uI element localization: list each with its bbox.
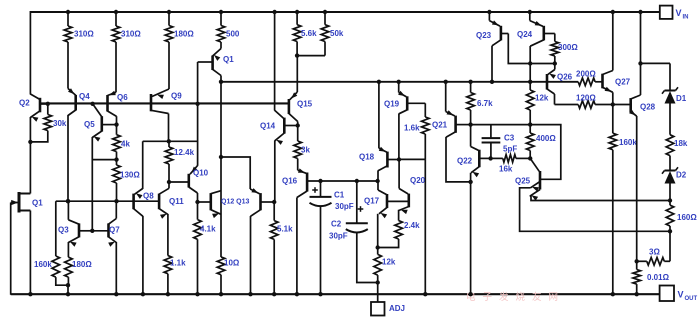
wire Q10 emitter feed (197, 62, 199, 166)
svg-text:Q26: Q26 (557, 73, 573, 82)
svg-text:120Ω: 120Ω (576, 94, 596, 103)
svg-text:ADJ: ADJ (389, 304, 405, 313)
svg-text:Q7: Q7 (109, 226, 120, 235)
wire Q13 collector down (250, 216, 252, 294)
node Q3 collector / base line (66, 199, 70, 203)
svg-text:5.1k: 5.1k (277, 225, 293, 234)
svg-text:18k: 18k (674, 139, 688, 148)
node 120ohm line / Q27 emitter (611, 102, 615, 106)
node y82 line / Q1a collector (219, 80, 223, 84)
node Q4 collector / 160k line (66, 199, 70, 203)
wire Q15 collector (297, 122, 299, 126)
transistor Q1a (500 ohm emitter follower) (220, 42, 222, 49)
node Q15 collector / Q14 base / 3k (296, 123, 300, 127)
node y82 / Q18 emitter (377, 80, 381, 84)
svg-text:180Ω: 180Ω (72, 260, 92, 269)
transistor Q14 (275, 110, 284, 118)
svg-text:Q24: Q24 (517, 30, 533, 39)
svg-text:V: V (676, 8, 682, 18)
svg-text:130Ω: 130Ω (120, 171, 140, 180)
resistor 16k (491, 157, 503, 159)
svg-text:2.4k: 2.4k (404, 221, 420, 230)
wire Q4 collector down (67, 115, 69, 201)
svg-text:Q22: Q22 (457, 157, 473, 166)
resistor 400ohm (529, 125, 531, 133)
svg-text:500: 500 (226, 30, 240, 39)
wire Q1 gate down to bottom rail (10, 203, 12, 295)
node Q16 base line / Q18 collector / Q17 collector (375, 179, 379, 183)
wire C1 bottom to rail (320, 206, 322, 294)
svg-text:12.4k: 12.4k (174, 148, 195, 157)
wire Q2 emitter down (29, 117, 31, 142)
resistor 5.6k (296, 12, 298, 25)
svg-text:180Ω: 180Ω (174, 30, 194, 39)
node 400ohm bottom / 16k / Q25 collector (528, 156, 532, 160)
wire Q10 collector to Q12 base node (197, 193, 199, 202)
svg-text:D2: D2 (676, 171, 687, 180)
transistor Q9 (152, 89, 169, 97)
wire 4k bottom to Q5 emitter column (92, 159, 116, 161)
svg-text:12k: 12k (535, 94, 549, 103)
node y82 / Q19 emitter (397, 80, 401, 84)
wire 310ohm-2 to Q6 emitter (115, 42, 117, 92)
node Q22 emitter / Q21 collector (468, 180, 472, 184)
wire C2 bottom to ADJ node (357, 232, 378, 282)
wire bottom rail (V_OUT) (11, 293, 660, 295)
transistor Q6 (108, 92, 117, 95)
wire Q3 emitter to 180ohm (67, 242, 69, 257)
node Q19 collector / Q18 base / 1.6k line (397, 157, 401, 161)
resistor 180ohm top (168, 12, 170, 26)
svg-text:Q23: Q23 (476, 31, 492, 40)
wire 310ohm-1 to Q4 emitter (67, 42, 69, 89)
svg-text:4k: 4k (121, 140, 130, 149)
resistor 4.1k (197, 202, 199, 220)
node top rail / Q14 collector column (272, 10, 276, 14)
terminal ADJ (371, 302, 385, 316)
terminal V_IN (660, 6, 673, 19)
node 4k bottom (114, 157, 118, 161)
node Q17 emitter / 2.4k / 12k (376, 245, 380, 249)
wire D1 branch (641, 62, 671, 64)
wire to Q15 emitter (296, 56, 298, 92)
svg-text:Q25: Q25 (515, 177, 531, 186)
node branch to Q13 emitter (219, 155, 223, 159)
node top rail / R 5.6k (295, 10, 299, 14)
svg-text:30pF: 30pF (335, 202, 354, 211)
resistor 12k upper (529, 82, 531, 90)
wire Q18 collector down to Q16 base node (377, 171, 379, 182)
resistor 5.1k (273, 202, 275, 221)
svg-text:V: V (678, 290, 684, 300)
svg-text:Q1: Q1 (223, 55, 234, 64)
transistor Q24 (529, 12, 531, 21)
diode D2 zener (665, 170, 676, 172)
capacitor C1 (320, 181, 322, 197)
svg-text:Q4: Q4 (79, 92, 90, 101)
node Q28 collector / D1 branch (638, 61, 642, 65)
resistor 160k left (55, 201, 57, 256)
wire Q22 emitter down (470, 173, 472, 294)
transistor Q17 (377, 181, 379, 190)
node 160k/180ohm join (66, 283, 70, 287)
wire left edge from top rail to Q2 collector (29, 11, 31, 95)
transistor Q1 (JFET) (18, 192, 21, 213)
svg-text:Q27: Q27 (615, 78, 631, 87)
node y82 / 12k top (528, 80, 532, 84)
resistor 130ohm (116, 160, 118, 165)
wire Q25 emitter 2 to D2 node line (530, 196, 670, 200)
resistor 50k (324, 12, 326, 25)
wire to 3ohm (669, 231, 671, 261)
node 130ohm / base line (114, 199, 118, 203)
svg-text:OUT: OUT (685, 296, 698, 302)
svg-text:Q2: Q2 (19, 99, 30, 108)
wire Q27 emitter down (612, 92, 614, 133)
resistor 310ohm second (115, 12, 117, 26)
transistor Q21 (445, 82, 447, 112)
node top rail / Q23 emitter (487, 10, 491, 14)
wire feedback loop to Q25 base (530, 125, 561, 180)
wire 120ohm line to Q28 base (555, 104, 579, 106)
svg-text:Q6: Q6 (117, 93, 128, 102)
transistor Q26 (554, 64, 556, 70)
node 5.6k/50k join (295, 53, 299, 57)
transistor Q13 (250, 189, 259, 194)
node top rail / R 500 (219, 10, 223, 14)
transistor Q27 (601, 74, 604, 89)
svg-text:Q14: Q14 (260, 122, 276, 131)
svg-text:1.6k: 1.6k (404, 124, 420, 133)
resistor 12k lower (377, 248, 379, 255)
node D2 bottom / Q25 emitter2 line (668, 198, 672, 202)
svg-text:Q16: Q16 (282, 177, 298, 186)
svg-text:10Ω: 10Ω (224, 259, 240, 268)
wire Q19 collector down (398, 114, 400, 160)
node base rail / 30k (46, 102, 50, 106)
node 12k bottom / feedback loop (528, 122, 532, 126)
transistor Q18 (378, 82, 380, 148)
transistor Q16 (298, 170, 307, 173)
svg-text:Q20: Q20 (410, 176, 426, 185)
wire Q17/Q20 common base (387, 200, 409, 202)
svg-text:Q21: Q21 (432, 121, 448, 130)
svg-text:Q18: Q18 (359, 153, 375, 162)
transistor Q2 (39, 98, 42, 113)
transistor Q20 (398, 160, 400, 189)
resistor 1.1k (164, 256, 172, 274)
wire Q23 base routing (508, 34, 555, 64)
svg-text:Q15: Q15 (297, 100, 313, 109)
transistor Q4 (68, 89, 76, 96)
svg-text:D1: D1 (676, 94, 687, 103)
svg-text:12k: 12k (382, 258, 396, 267)
svg-text:Q8: Q8 (143, 192, 154, 201)
wire Q6 collector down (116, 116, 118, 125)
transistor Q12 (210, 193, 213, 210)
svg-text:400Ω: 400Ω (536, 134, 556, 143)
svg-text:Q10: Q10 (193, 169, 209, 178)
svg-text:3k: 3k (301, 146, 310, 155)
resistor 160ohm right (669, 201, 671, 206)
wire D1 to 18k (669, 104, 671, 135)
svg-text:Q17: Q17 (364, 197, 380, 206)
wire Q1 source down to bottom rail (29, 211, 31, 295)
svg-text:Q5: Q5 (84, 120, 95, 129)
wire down to Q8 emitter (142, 141, 144, 189)
resistor 12.4k (168, 141, 170, 147)
capacitor C2 (356, 181, 358, 223)
wire Q24 collector down (529, 46, 531, 64)
svg-text:310Ω: 310Ω (121, 30, 141, 39)
node Q28 emitter / 3ohm / 0.01ohm (635, 259, 639, 263)
svg-text:200Ω: 200Ω (576, 70, 596, 79)
svg-text:C1: C1 (334, 191, 345, 200)
wire Q10 base (169, 181, 189, 183)
svg-text:Q28: Q28 (640, 103, 656, 112)
node Q3/Q7 base (90, 229, 94, 233)
svg-text:0.01Ω: 0.01Ω (647, 273, 670, 282)
node top rail / R 180ohm (167, 10, 171, 14)
svg-text:4.1k: 4.1k (200, 225, 216, 234)
wire Q1a-collector column down to Q12 (220, 82, 222, 257)
svg-text:Q9: Q9 (171, 92, 182, 101)
wire Q14 collector column (274, 12, 276, 111)
node top rail / R 310ohm-1 (66, 10, 70, 14)
svg-text:IN: IN (683, 15, 689, 21)
transistor Q11 (158, 194, 161, 210)
wire down to Q1 drain (29, 142, 31, 194)
node 6.7k bottom / Q21 base / Q22 collector (468, 122, 472, 126)
wire Q14 emitter down to Q13 base node (274, 141, 276, 203)
svg-text:160k: 160k (34, 260, 52, 269)
wire 18k to D2 (669, 156, 671, 170)
svg-text:300Ω: 300Ω (558, 43, 578, 52)
svg-text:Q19: Q19 (384, 100, 400, 109)
node Q12 base / Q10 collector / 4.1k (195, 200, 199, 204)
node C3 bottom / 16k line (488, 156, 492, 160)
capacitor C3 (490, 125, 492, 139)
node top rail / Q27 collector (611, 10, 615, 14)
resistor 6.7k (470, 82, 472, 93)
wire top supply rail (V_IN) (30, 11, 659, 13)
node y82 / 6.7k top (468, 80, 472, 84)
svg-text:Q3: Q3 (58, 226, 69, 235)
node 12k bottom / C2 / ADJ stem (376, 280, 380, 284)
svg-text:160Ω: 160Ω (677, 213, 697, 222)
resistor 1.6k (424, 103, 426, 117)
node y82 / Q21 emitter (444, 80, 448, 84)
transistor Q19 (398, 82, 400, 93)
wire long horizontal node to Q27 base with 200ohm (221, 81, 578, 83)
diode D1 zener (665, 90, 676, 92)
node Q2 emitter / 30k junction (28, 140, 32, 144)
svg-text:C2: C2 (331, 220, 342, 229)
transistor Q7 (107, 223, 110, 237)
transistor Q15 (290, 92, 298, 100)
wire Q17 emitter down (377, 214, 379, 248)
node 12.4k bottom / Q10 base / Q11 collector (167, 180, 171, 184)
resistor 0.01ohm (636, 261, 638, 269)
wire Q1a collector to y82 node (220, 76, 222, 83)
resistor 500 (220, 12, 222, 26)
node 300ohm bottom / Q26 emitter (553, 61, 557, 65)
resistor 3k (297, 126, 299, 142)
transistor Q23 (488, 12, 490, 21)
resistor 310ohm first (67, 12, 69, 26)
wire 180ohm to Q9 emitter (168, 42, 170, 89)
transistor Q22 (470, 125, 472, 147)
resistor 2.4k (398, 210, 400, 221)
node Q6 collector / Q5 base / 4k (114, 122, 118, 126)
wire Q21 collector down (446, 137, 471, 182)
wire Q5 emitter down to Q3/Q7 bases (91, 137, 93, 231)
svg-text:电子发烧友网: 电子发烧友网 (466, 291, 565, 303)
wire to Q13 emitter (221, 157, 250, 189)
transistor Q8 (132, 194, 135, 210)
wire 1.6k bottom node to bottom rail (399, 158, 425, 160)
svg-text:6.7k: 6.7k (477, 99, 493, 108)
resistor 160k right (609, 133, 617, 150)
node base rail / Q5 collector (90, 102, 94, 106)
node Q13 base / Q14 emitter / 5.1k (272, 200, 276, 204)
wire Q9 collector node horizontal (143, 140, 198, 142)
wire ADJ stem (377, 283, 379, 303)
svg-text:160k: 160k (619, 138, 637, 147)
resistor 3ohm (647, 258, 665, 266)
node top rail / R 310ohm-2 (114, 10, 118, 14)
resistor 180ohm left (65, 257, 73, 277)
svg-text:C3: C3 (504, 134, 515, 143)
transistor Q5 (93, 104, 102, 117)
wire Q11 emitter down (167, 214, 169, 256)
transistor Q3 (78, 223, 81, 237)
svg-text:5pF: 5pF (503, 145, 517, 154)
wire Q7 emitter down (115, 242, 117, 294)
terminal V_OUT (660, 286, 674, 302)
node y82 / Q23 collector (490, 80, 494, 84)
node top rail / Q24 emitter (528, 10, 532, 14)
svg-text:3Ω: 3Ω (649, 248, 660, 257)
wire Q9 collector down (168, 114, 170, 142)
wire Q23 collector down to y82 (491, 46, 493, 82)
wire node horizontal to 12k column (471, 124, 531, 126)
node Q23 base line / Q24 collector (528, 61, 532, 65)
svg-text:5.6k: 5.6k (301, 29, 317, 38)
node base rail / Q1 base column (195, 102, 199, 106)
resistor 18k (666, 135, 674, 156)
resistor 30k (47, 104, 49, 115)
svg-text:30pF: 30pF (329, 232, 348, 241)
wire down to y82 (529, 64, 531, 82)
svg-text:310Ω: 310Ω (74, 30, 94, 39)
svg-text:Q12 Q13: Q12 Q13 (221, 199, 250, 206)
wire Q8/Q11 base line (56, 200, 159, 202)
resistor 300ohm (554, 34, 556, 42)
wire PNP common base rail (40, 102, 289, 104)
node 160ohm bottom / current limit line (668, 229, 672, 233)
svg-text:50k: 50k (330, 29, 344, 38)
svg-text:1.1k: 1.1k (170, 259, 186, 268)
node C2 top (355, 179, 359, 183)
resistor 4k (116, 125, 118, 135)
node Q9 collector / 12.4k top (167, 139, 171, 143)
svg-text:Q11: Q11 (169, 197, 184, 206)
wire Q28 emitter down (636, 116, 638, 261)
svg-text:Q1: Q1 (32, 199, 43, 208)
wire Q8 collector down (142, 216, 144, 294)
wire Q16 collector down (296, 198, 298, 295)
transistor Q10 (188, 174, 191, 188)
svg-text:30k: 30k (53, 119, 67, 128)
wire Q26 collector to 120ohm line (554, 94, 556, 105)
node top rail / R 50k (323, 10, 327, 14)
svg-text:16k: 16k (499, 165, 513, 174)
wire D2 to node (669, 184, 671, 201)
transistor Q25 (530, 158, 539, 171)
node C1 top (318, 179, 322, 183)
resistor 10ohm (217, 257, 225, 275)
node top rail / Q28 collector (638, 10, 642, 14)
wire Q25 emitter 1 to current limit line (520, 188, 670, 232)
transistor Q28 (629, 98, 632, 112)
